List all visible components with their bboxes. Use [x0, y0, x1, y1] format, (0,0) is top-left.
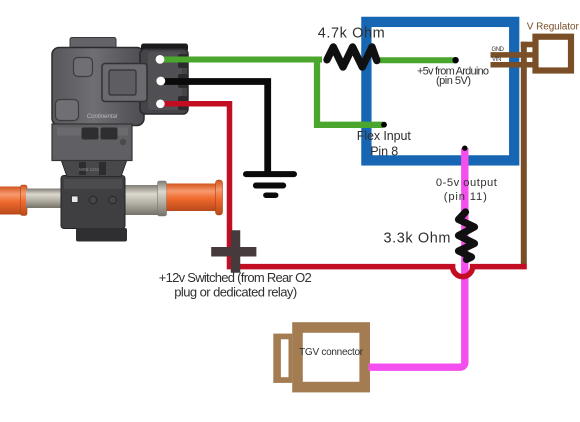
svg-text:Continental: Continental	[87, 114, 118, 120]
svg-text:+12v Switched (from Rear O2: +12v Switched (from Rear O2	[159, 270, 312, 285]
svg-text:V Regulator: V Regulator	[527, 22, 580, 33]
svg-text:4.7k Ohm: 4.7k Ohm	[318, 26, 385, 42]
svg-text:Flex Input: Flex Input	[357, 129, 412, 143]
svg-text:0-5v output: 0-5v output	[436, 177, 498, 189]
svg-text:3.3k Ohm: 3.3k Ohm	[384, 231, 451, 247]
svg-text:VIN: VIN	[492, 57, 502, 63]
svg-text:MXB-1234: MXB-1234	[79, 167, 99, 172]
svg-text:Pin 8: Pin 8	[370, 145, 398, 159]
svg-text:(pin 5V): (pin 5V)	[436, 75, 471, 87]
svg-text:(pin 11): (pin 11)	[444, 191, 487, 203]
svg-text:plug or dedicated relay): plug or dedicated relay)	[174, 284, 297, 299]
svg-text:GND: GND	[492, 47, 505, 53]
svg-text:TGV connector: TGV connector	[299, 347, 364, 358]
